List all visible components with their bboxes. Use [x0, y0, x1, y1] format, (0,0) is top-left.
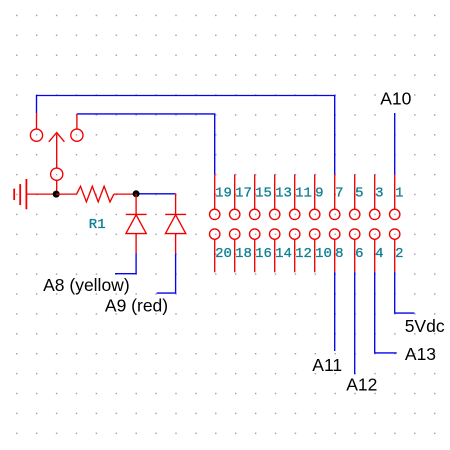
- resistor R1: [56, 186, 136, 202]
- junction dot at resistor/diode node: [133, 190, 140, 197]
- svg-text:A9 (red): A9 (red): [105, 296, 168, 316]
- wire net A19 from switch throw 2 to connector pin 19: [77, 114, 215, 174]
- connector pin 10: [310, 229, 320, 272]
- connector pin 14: [270, 229, 280, 272]
- svg-text:A8 (yellow): A8 (yellow): [43, 275, 130, 295]
- connector pin 19: [210, 174, 220, 219]
- connector pin 17: [230, 174, 240, 219]
- wire net A9 from diode D2 cathode: [157, 253, 176, 293]
- switch SW1: [30, 113, 83, 194]
- svg-text:19: 19: [215, 186, 232, 202]
- wire net A10 to connector pin 1: [394, 113, 396, 174]
- connector pin 16: [250, 229, 260, 272]
- svg-text:5Vdc: 5Vdc: [405, 316, 445, 336]
- connector pin 1: [390, 174, 400, 219]
- wire net A12 from connector pin 6: [354, 272, 356, 374]
- svg-text:20: 20: [215, 246, 232, 262]
- connector pin 18: [230, 229, 240, 272]
- connector pin 3: [370, 174, 380, 219]
- diode D1: [126, 194, 147, 254]
- svg-text:17: 17: [235, 186, 252, 202]
- svg-text:9: 9: [315, 186, 323, 202]
- connector pin 11: [290, 174, 300, 219]
- svg-text:11: 11: [295, 186, 312, 202]
- ground symbol: [14, 179, 56, 209]
- svg-text:14: 14: [275, 246, 292, 262]
- connector pin 20: [210, 229, 220, 272]
- connector pin 4: [370, 229, 380, 272]
- wire net 5Vdc from connector pin 2: [395, 272, 415, 313]
- wire from junction to diode D2 anode: [136, 193, 176, 195]
- svg-text:A12: A12: [346, 374, 377, 394]
- wire net A8 from diode D1 cathode: [115, 253, 136, 273]
- svg-text:1: 1: [395, 186, 403, 202]
- junction dot at ground node: [53, 191, 60, 198]
- connector pin 15: [250, 174, 260, 219]
- svg-text:R1: R1: [89, 217, 106, 233]
- svg-text:16: 16: [255, 246, 272, 262]
- svg-text:5: 5: [355, 186, 363, 202]
- svg-text:10: 10: [315, 246, 332, 262]
- wire net A11 from connector pin 8: [334, 272, 336, 351]
- connector pin 5: [350, 174, 360, 219]
- svg-text:A11: A11: [312, 355, 342, 375]
- connector pin 8: [330, 229, 340, 272]
- connector pin 12: [290, 229, 300, 272]
- svg-text:A13: A13: [405, 344, 436, 364]
- connector pin 9: [310, 174, 320, 219]
- svg-text:3: 3: [375, 186, 383, 202]
- connector pin 7: [330, 174, 340, 219]
- svg-text:7: 7: [335, 186, 343, 202]
- svg-text:8: 8: [335, 246, 343, 262]
- connector pin 13: [270, 174, 280, 219]
- svg-text:2: 2: [395, 246, 403, 262]
- svg-text:A10: A10: [380, 89, 411, 109]
- svg-text:6: 6: [355, 246, 363, 262]
- svg-text:15: 15: [255, 186, 272, 202]
- svg-text:4: 4: [375, 246, 383, 262]
- wire net A7 from switch throw 1 to connector pin 7: [37, 96, 335, 175]
- connector pin 6: [350, 229, 360, 272]
- diode D2: [165, 194, 186, 254]
- connector pin 2: [390, 229, 400, 272]
- svg-text:13: 13: [275, 186, 292, 202]
- svg-text:12: 12: [295, 246, 312, 262]
- svg-text:18: 18: [235, 246, 252, 262]
- wire net A13 from connector pin 4: [375, 272, 397, 353]
